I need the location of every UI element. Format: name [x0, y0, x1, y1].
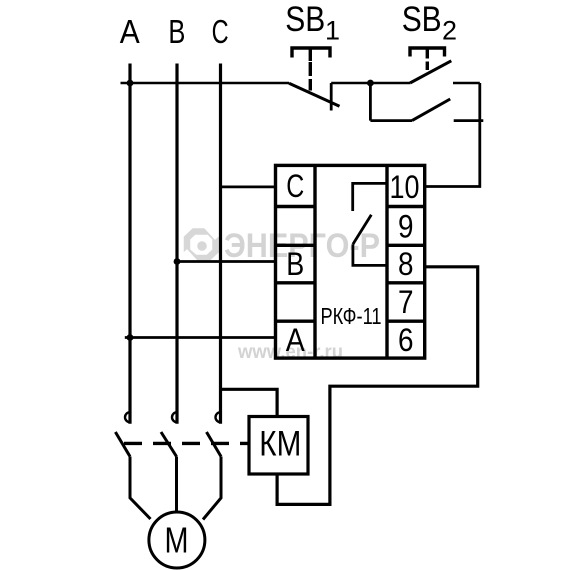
wire phase C vertical	[219, 64, 222, 424]
wire phase C to KM coil top	[221, 389, 278, 417]
wire phase C to terminal C	[221, 185, 278, 188]
motor M	[149, 512, 205, 568]
wire SB2 right terminal	[453, 82, 480, 85]
contactor main contact KM.1	[115, 412, 130, 456]
wire phase B vertical	[175, 64, 178, 424]
wire SB1 to SB2	[331, 82, 410, 85]
junction node on phase A lower	[127, 334, 134, 341]
mechanical link dashed	[124, 442, 249, 445]
contactor main contact KM.2	[161, 412, 177, 456]
svg-text:SB: SB	[285, 0, 325, 39]
svg-text:2: 2	[442, 15, 457, 45]
junction node before SB2	[367, 80, 374, 87]
svg-text:C: C	[286, 168, 304, 204]
watermark logo	[185, 226, 217, 263]
relay U1 РКФ-11 box	[276, 165, 425, 358]
wire contact to motor left	[130, 457, 151, 520]
wire phase A vertical	[128, 64, 131, 424]
wire contact to motor right	[203, 457, 221, 520]
svg-text:C: C	[212, 13, 229, 50]
svg-text:КМ: КМ	[259, 424, 301, 463]
contactor coil KM	[249, 417, 308, 475]
svg-text:B: B	[168, 13, 185, 50]
wire relay pin 8 to KM coil	[277, 267, 478, 505]
svg-text:1: 1	[325, 15, 340, 45]
svg-text:A: A	[120, 13, 140, 50]
svg-text:8: 8	[398, 246, 414, 282]
relay internal contact 10-8	[353, 183, 387, 265]
wire control bus from A to SB1	[121, 82, 290, 85]
svg-text:10: 10	[390, 169, 420, 205]
contact KM auxiliary (self-holding, parallel to SB2)	[370, 83, 483, 121]
junction node on phase B	[174, 258, 181, 265]
wire contact to motor middle	[175, 457, 178, 513]
svg-text:9: 9	[398, 209, 414, 245]
wire to relay pin 10	[425, 83, 480, 187]
pushbutton SB2 (NO start button)	[410, 48, 451, 83]
contactor main contact KM.3	[207, 412, 222, 456]
wire phase A to terminal A	[125, 336, 277, 339]
svg-text:РКФ-11: РКФ-11	[321, 303, 382, 329]
svg-text:SB: SB	[402, 0, 442, 39]
svg-text:7: 7	[398, 284, 414, 320]
svg-text:B: B	[286, 246, 304, 282]
svg-text:M: M	[165, 519, 189, 560]
svg-text:6: 6	[398, 322, 414, 358]
svg-text:A: A	[286, 322, 306, 358]
wire phase B to terminal B	[177, 260, 277, 263]
junction node on phase A	[127, 80, 134, 87]
pushbutton SB1 (NC stop button)	[289, 48, 340, 111]
